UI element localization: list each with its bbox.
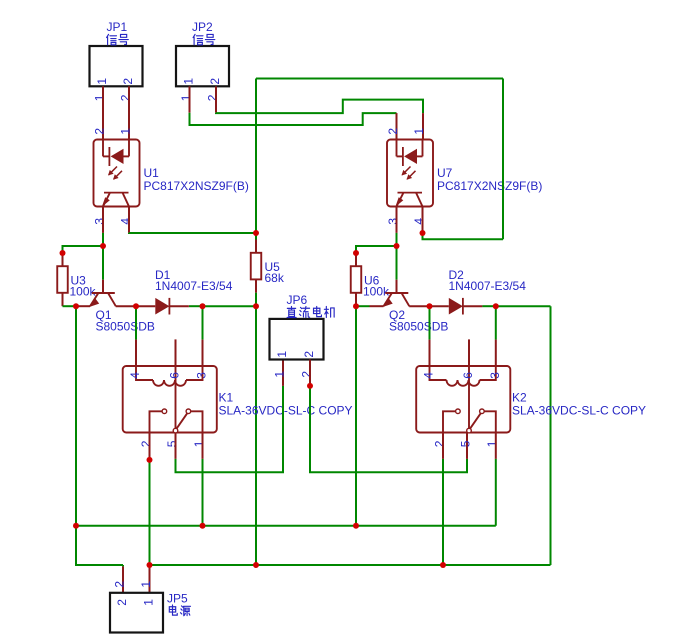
svg-text:U7: U7 (437, 166, 453, 180)
svg-text:K2: K2 (512, 390, 527, 404)
wire U6 bottom stub (355, 293, 357, 306)
svg-text:PC817X2NSZ9F(B): PC817X2NSZ9F(B) (144, 179, 249, 193)
wire lower bus (150, 564, 551, 566)
wire JP5 pin1 stub (149, 566, 151, 592)
svg-text:2: 2 (92, 128, 106, 135)
wire K1 pin2 to lower bus (149, 460, 151, 565)
svg-text:3: 3 (195, 372, 209, 379)
svg-text:6: 6 (461, 372, 475, 379)
transistor Q2 (383, 293, 449, 333)
relay K2 (416, 366, 646, 447)
wire U1.3 down to Q1 base (102, 233, 104, 280)
wire right riser x=504 (502, 79, 504, 240)
wire Q2 collector to D2 node (409, 305, 429, 307)
svg-text:1: 1 (92, 94, 106, 101)
wire K2 pin3 (495, 306, 497, 339)
connector JP6 (270, 293, 335, 377)
JP2 value label 信号 (193, 34, 203, 44)
wire JP6 pin2 stub (309, 360, 311, 386)
svg-text:2: 2 (386, 128, 400, 135)
wire U6 top stub (355, 253, 357, 266)
svg-text:2: 2 (139, 440, 153, 447)
wire K1 pin1 stub (202, 433, 204, 459)
junction U7 pin3 / U6 branch (394, 243, 400, 249)
wire K1 pin2 stub (149, 433, 151, 460)
svg-text:1: 1 (182, 78, 196, 85)
wire Q2 emitter wire (356, 305, 370, 307)
wire right riser x=550.5 down to lower bus (550, 306, 552, 565)
junction U3 top (60, 250, 66, 256)
wire U7.3 down to Q2 base (396, 233, 398, 280)
junction D1 anode node (133, 303, 139, 309)
wire JP1.2 to U1 pin1 (128, 86, 130, 139)
diode D2 (430, 268, 527, 315)
optocoupler U7 (386, 128, 543, 225)
wire K1 pin5 stub (175, 433, 177, 459)
junction U1 pin3 / U3 branch (100, 243, 106, 249)
svg-text:100k: 100k (363, 284, 390, 298)
svg-text:1N4007-E3/54: 1N4007-E3/54 (449, 279, 527, 293)
wire D2 cathode to K2.3 node (482, 305, 495, 307)
wire JP1.1 to U1 pin2 (102, 86, 104, 139)
wire K2 pin2 to lower bus (442, 459, 444, 565)
wire U5 top pin (255, 233, 257, 240)
svg-text:1: 1 (95, 78, 109, 85)
wire D2 node to K2 pin4 (429, 306, 431, 339)
svg-text:JP6: JP6 (287, 293, 308, 307)
svg-text:5: 5 (165, 440, 179, 447)
diode D1 (136, 268, 233, 315)
svg-text:1: 1 (139, 581, 153, 588)
wire D1 node to K1 pin4 (135, 306, 137, 339)
junction U6 column / upper bus (353, 523, 359, 529)
svg-text:68k: 68k (265, 271, 285, 285)
junction K1 pin2 (147, 457, 153, 463)
wire U1 pin3 stub (102, 207, 104, 233)
wire branch to U6 top (356, 246, 397, 253)
wire to U7 pin4 (423, 233, 504, 239)
wire JP2.1 to U7 pin2 (190, 86, 397, 139)
wire JP6 pin1 stub (282, 360, 284, 386)
svg-text:1N4007-E3/54: 1N4007-E3/54 (155, 279, 233, 293)
svg-text:1: 1 (118, 128, 132, 135)
connector JP1 (90, 20, 143, 101)
wire Q1 emitter stub (76, 305, 90, 307)
wire Q2 base stub (396, 280, 398, 293)
svg-text:2: 2 (115, 599, 129, 606)
svg-text:1: 1 (272, 371, 286, 378)
svg-text:1: 1 (485, 440, 499, 447)
svg-text:4: 4 (118, 218, 132, 225)
svg-text:SLA-36VDC-SL-C COPY: SLA-36VDC-SL-C COPY (219, 404, 353, 418)
wire U5 bottom pin (255, 279, 257, 292)
wire Q2 emitter node to upper bus (355, 306, 357, 526)
svg-text:2: 2 (302, 351, 316, 358)
wire Q1 base stub (102, 280, 104, 293)
svg-text:5: 5 (458, 440, 472, 447)
junction D2 anode node (427, 303, 433, 309)
svg-text:K1: K1 (219, 390, 234, 404)
svg-text:SLA-36VDC-SL-C COPY: SLA-36VDC-SL-C COPY (512, 404, 646, 418)
junction K2 pin2 / lower bus (440, 562, 446, 568)
svg-text:PC817X2NSZ9F(B): PC817X2NSZ9F(B) (437, 179, 542, 193)
junction U5 column / lower bus (253, 562, 259, 568)
svg-text:2: 2 (208, 78, 222, 85)
svg-text:2: 2 (432, 440, 446, 447)
relay K1 (123, 366, 353, 447)
junction K1 pin3 node (200, 303, 206, 309)
junction Q1 emitter node (73, 303, 79, 309)
svg-text:1: 1 (412, 128, 426, 135)
wire upper bus (76, 525, 496, 527)
wire JP2.2 to U7 pin1 (216, 86, 423, 139)
pin stub K2 pin6 (unconnected) (468, 339, 470, 366)
wire U7 pin4 stub (422, 207, 424, 234)
junction emitter column / upper bus (73, 523, 79, 529)
JP1 value label 信号 (107, 34, 117, 44)
wire JP5 pin2 stub (122, 566, 124, 592)
svg-text:1: 1 (275, 351, 289, 358)
wire K2.3 node to right riser (496, 305, 551, 307)
junction Q2 emitter node (353, 303, 359, 309)
svg-text:4: 4 (412, 218, 426, 225)
resistor U6 (351, 266, 390, 298)
junction K2 pin3 node (493, 303, 499, 309)
resistor U3 (57, 266, 96, 298)
wire U5 top riser (255, 79, 257, 234)
wire K2 pin2 stub (442, 433, 444, 459)
junction U7 pin4 (420, 230, 426, 236)
junction JP5 pin1 / lower bus (147, 562, 153, 568)
wire U5 node down to lower bus (255, 306, 257, 565)
junction U5 top (253, 230, 259, 236)
svg-text:100k: 100k (70, 284, 97, 298)
wire K1 pin1 to upper bus (202, 459, 204, 526)
svg-text:4: 4 (422, 372, 436, 379)
svg-text:1: 1 (179, 94, 193, 101)
wire Q1 collector to D1 node (116, 305, 136, 307)
svg-text:3: 3 (488, 372, 502, 379)
optocoupler U1 (92, 128, 249, 225)
junction U6 top (353, 250, 359, 256)
svg-text:1: 1 (192, 440, 206, 447)
JP5 value label 电源 (169, 605, 177, 615)
svg-text:2: 2 (205, 94, 219, 101)
wire JP6 pin2 to K2 pin5 (310, 386, 467, 472)
wire K1.3 node to U5 bottom (203, 305, 257, 307)
wire U3 to emitter node (63, 305, 77, 307)
svg-text:2: 2 (112, 581, 126, 588)
svg-text:3: 3 (386, 218, 400, 225)
svg-text:U1: U1 (144, 166, 160, 180)
JP6 value label 直流电机 (287, 307, 296, 318)
junction U5 bottom (253, 303, 259, 309)
svg-text:2: 2 (299, 371, 313, 378)
wire K1 pin5 to JP6 pin1 (176, 386, 284, 472)
pin stub K1 pin6 (unconnected) (175, 339, 177, 366)
wire K2 pin1 stub (495, 433, 497, 459)
wire K2 pin1 to upper bus (495, 459, 497, 526)
wire U3 top stub (62, 253, 64, 266)
junction K1 pin1 / upper bus (200, 523, 206, 529)
svg-text:JP5: JP5 (167, 591, 188, 605)
wire U1.4 to U5 top (129, 232, 256, 234)
svg-text:S8050SDB: S8050SDB (96, 319, 155, 333)
svg-text:S8050SDB: S8050SDB (389, 319, 448, 333)
svg-text:2: 2 (118, 94, 132, 101)
transistor Q1 (89, 293, 155, 333)
svg-text:JP2: JP2 (192, 20, 213, 34)
wire JP5 pin2 branch (76, 526, 123, 565)
wire U7 pin3 stub (396, 207, 398, 233)
svg-text:3: 3 (92, 218, 106, 225)
svg-text:2: 2 (121, 78, 135, 85)
wire U1 pin4 stub (128, 207, 130, 233)
wire D1 cathode to K1.3 node (189, 305, 203, 307)
svg-text:JP1: JP1 (107, 20, 128, 34)
resistor U5 (251, 253, 285, 285)
wire emitter node to lower buses (75, 306, 77, 526)
junction JP6 pin2 (307, 383, 313, 389)
wire K2 pin5 stub (466, 433, 468, 459)
svg-text:6: 6 (168, 372, 182, 379)
wire branch to U3 top (63, 246, 104, 253)
connector JP5 (110, 581, 190, 633)
svg-text:1: 1 (142, 599, 156, 606)
connector JP2 (176, 20, 229, 101)
wire U3 bottom stub (62, 293, 64, 306)
svg-text:4: 4 (128, 372, 142, 379)
wire K1 pin3 (202, 306, 204, 339)
wire top horizontal run (256, 78, 503, 80)
